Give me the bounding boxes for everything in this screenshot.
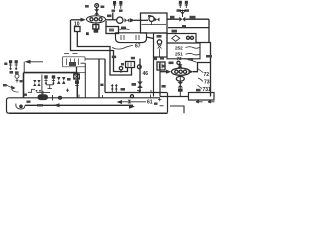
compressor unit U1 capsule — [87, 16, 106, 23]
outer right box — [196, 43, 211, 97]
label 48 — [132, 83, 137, 86]
J-pipe right — [167, 93, 169, 113]
tick label on riser — [100, 84, 103, 86]
arrow into U2 left — [160, 71, 167, 73]
interior cluster of big left box — [33, 75, 70, 98]
label 71 — [162, 65, 166, 68]
arrow out of U2 right — [189, 70, 194, 74]
label 24 — [170, 16, 175, 19]
label 13 — [101, 6, 105, 9]
label 49 — [121, 88, 126, 91]
check valve below U2 — [179, 76, 181, 97]
outer suction pipe (left) — [71, 20, 128, 72]
valve stem above U2 — [179, 64, 181, 68]
big left box — [24, 72, 78, 74]
pipe 73 leader — [184, 59, 197, 63]
diamond box B2 — [167, 34, 196, 44]
label 15 — [85, 5, 89, 8]
line y92.5 mid — [105, 92, 167, 94]
arrow into compressor left — [71, 18, 86, 22]
box B1 (indoor heat exchanger unit top) — [141, 13, 168, 33]
four-way valve stem above U1 — [94, 9, 99, 16]
accumulator symbols top right of capsule : solenoid pair — [113, 1, 123, 9]
coil 251 leader — [186, 53, 200, 55]
ticks on y97.5 — [52, 95, 54, 101]
label 9 — [112, 56, 116, 59]
check valve pair on risers — [111, 85, 114, 90]
small box on left pipe — [157, 62, 165, 70]
label 74 — [196, 89, 201, 92]
wire right then down — [208, 19, 210, 42]
leader squiggle to 61 — [112, 46, 133, 50]
svg-text:46: 46 — [143, 71, 149, 77]
svg-text:73: 73 — [204, 80, 210, 86]
wire compressor right to pump — [106, 19, 118, 21]
left arrow into box top — [24, 62, 43, 73]
label 72 — [198, 69, 204, 73]
label 12 right of capsule — [107, 15, 112, 18]
verticals x99 x105 — [98, 59, 100, 98]
svg-text:61: 61 — [147, 100, 153, 106]
arrow into box B1 — [130, 18, 135, 22]
left outside cluster — [3, 60, 23, 90]
coil 252 leader — [186, 47, 200, 49]
compressor unit U2 capsule — [172, 68, 190, 75]
small marks above box — [28, 89, 35, 92]
vessel (muffler) — [116, 33, 147, 43]
tick 29 — [182, 25, 186, 27]
vertical 46 with valve — [139, 59, 141, 93]
connector dashed box to line y59 — [85, 58, 105, 60]
svg-text:67: 67 — [135, 44, 141, 50]
labels 20 21 — [112, 10, 116, 12]
check valve branch below capsule — [93, 23, 99, 33]
ticks near J — [158, 98, 162, 101]
label 23 — [157, 35, 162, 38]
B1 internal line — [142, 24, 167, 26]
strainer box at J-top — [126, 62, 135, 68]
solenoid flowers top far right — [177, 1, 190, 12]
dashed evaporator box — [63, 57, 86, 67]
pump blob on line — [38, 94, 49, 100]
expansion device box on inner line — [75, 27, 81, 32]
bottom-left box — [7, 98, 10, 113]
small valve on line 61 — [128, 100, 132, 104]
small valve circle node — [119, 67, 122, 70]
coil box B3 with labels — [167, 43, 200, 59]
left small box with service valve — [154, 33, 168, 57]
mid line y106 with arrows — [25, 104, 133, 106]
ticks on it — [112, 84, 116, 93]
valve circle on line 46 — [137, 65, 141, 69]
label 48b — [162, 85, 166, 88]
marks at top of 46 — [131, 57, 135, 60]
svg-text:72: 72 — [204, 72, 210, 78]
long line y97.5 — [9, 97, 160, 99]
label 732 — [206, 55, 212, 58]
inner liquid pipe — [77, 32, 131, 76]
svg-text:73: 73 — [177, 56, 183, 61]
B1 internal cluster — [148, 15, 160, 25]
sensor dot — [86, 32, 89, 35]
solenoid S1 above valve — [95, 4, 99, 10]
label 11 — [121, 27, 126, 30]
expansion valve row — [167, 10, 209, 22]
bottom-right flat box — [189, 93, 215, 101]
hook pump inside — [16, 104, 25, 110]
valve V1 bowtie — [125, 18, 130, 22]
wire from capsule down-right to receiver box — [105, 21, 107, 27]
bottom long line — [9, 112, 168, 114]
pump motor M1 — [117, 17, 123, 23]
tick 19 — [121, 63, 124, 65]
wire down to pump — [112, 13, 114, 21]
svg-text:252: 252 — [175, 46, 183, 51]
label 731 — [198, 85, 203, 89]
small node marks — [189, 58, 194, 61]
label 73 with brace — [198, 78, 203, 82]
receiver small box — [106, 27, 119, 34]
labels 18 — [153, 58, 157, 61]
component rect with X inside box — [74, 74, 80, 79]
small circle above — [177, 61, 180, 64]
vertical from dashed box into box — [76, 67, 78, 74]
second wire row — [168, 27, 209, 29]
label 25 — [190, 16, 196, 19]
